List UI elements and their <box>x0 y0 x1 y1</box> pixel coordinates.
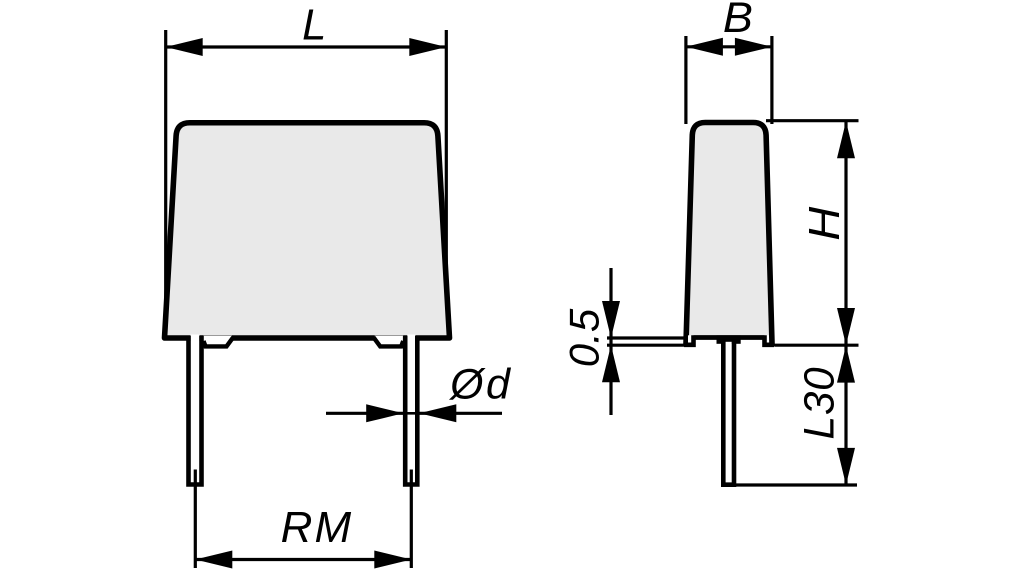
svg-text:L: L <box>302 2 326 50</box>
svg-text:0.5: 0.5 <box>560 308 607 367</box>
svg-text:B: B <box>723 0 753 42</box>
svg-text:L30: L30 <box>796 367 844 440</box>
svg-text:Ød: Ød <box>448 361 512 409</box>
svg-text:RM: RM <box>281 503 353 552</box>
svg-text:H: H <box>800 206 849 240</box>
